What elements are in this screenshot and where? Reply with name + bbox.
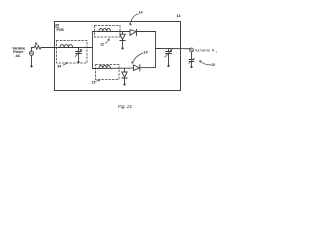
svg-text:12: 12 [100,43,104,47]
svg-text:15: 15 [211,63,215,67]
svg-text:13: 13 [92,80,96,84]
svg-text:AC: AC [15,54,20,58]
svg-text:Variable R: Variable R [195,48,215,52]
svg-text:14: 14 [139,11,143,15]
svg-text:Fig. 21: Fig. 21 [118,104,132,109]
svg-text:14: 14 [177,14,181,18]
svg-text:14': 14' [144,50,149,54]
svg-text:PCB: PCB [57,28,65,32]
svg-text:34: 34 [57,65,61,69]
